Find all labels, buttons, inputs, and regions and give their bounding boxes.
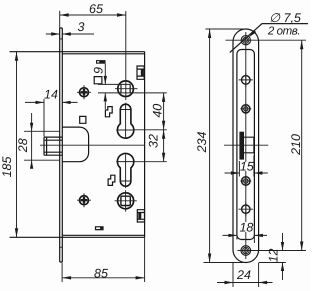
svg-text:9: 9 [92, 67, 106, 74]
svg-text:28: 28 [16, 138, 30, 153]
svg-text:15: 15 [240, 160, 254, 174]
svg-text:14: 14 [44, 88, 58, 102]
svg-text:210: 210 [289, 134, 303, 156]
svg-text:∅ 7,5: ∅ 7,5 [269, 11, 301, 25]
svg-text:185: 185 [0, 157, 14, 178]
svg-text:3: 3 [78, 20, 85, 34]
svg-text:12: 12 [267, 249, 281, 263]
svg-text:18: 18 [239, 221, 253, 235]
svg-text:40: 40 [151, 104, 165, 118]
svg-text:234: 234 [195, 132, 209, 154]
svg-text:65: 65 [89, 2, 103, 16]
svg-text:2 отв.: 2 отв. [267, 26, 300, 38]
svg-text:85: 85 [94, 266, 108, 280]
svg-text:32: 32 [147, 134, 161, 148]
svg-text:24: 24 [236, 268, 251, 282]
